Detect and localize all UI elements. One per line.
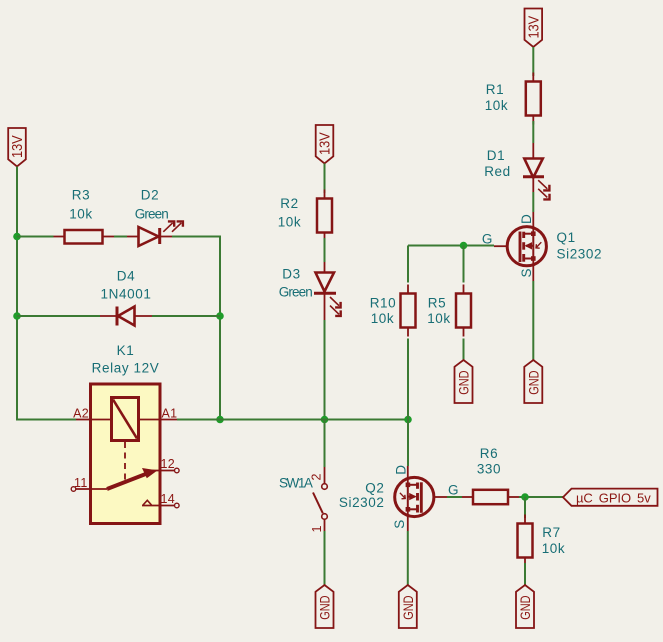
wire: gate row corner down to R10 (407, 246, 409, 283)
svg-text:Q2: Q2 (365, 481, 384, 496)
junction: left rail at D4 row (13, 312, 21, 320)
wire: R6 to global label (519, 496, 563, 498)
svg-text:11: 11 (74, 476, 88, 490)
svg-text:14: 14 (161, 492, 176, 506)
wire: R10 to relay row (407, 339, 409, 420)
junction: relay row at x220 (216, 416, 224, 424)
relay pin 14 (142, 500, 179, 508)
power symbol GND under R5 (455, 360, 473, 403)
svg-text:10k: 10k (427, 311, 451, 326)
transistor Q1 Si2302 (482, 212, 547, 281)
svg-text:10k: 10k (542, 541, 566, 556)
svg-text:10k: 10k (278, 215, 302, 230)
svg-text:Relay 12V: Relay 12V (92, 361, 160, 376)
diode D4 (100, 307, 152, 326)
resistor R6 (462, 490, 519, 504)
svg-text:R2: R2 (280, 196, 298, 211)
svg-text:D1: D1 (487, 148, 505, 163)
svg-text:G: G (482, 232, 493, 247)
wire: Q2 source to GND (407, 531, 409, 585)
wire: Q1 source to GND (532, 281, 534, 360)
junction: relay row at x324 (321, 416, 329, 424)
svg-text:R10: R10 (370, 296, 397, 311)
junction: R6/R7 node (521, 493, 529, 501)
wire: relay row down to Q2 drain (407, 420, 409, 467)
wire: D2 down to relay row (172, 237, 220, 420)
relay K1 body (91, 384, 161, 524)
wire: D3 to relay row (324, 320, 326, 420)
svg-text:µC GPIO 5v: µC GPIO 5v (576, 491, 651, 506)
switch SW1A (313, 467, 327, 531)
svg-text:R5: R5 (428, 296, 446, 311)
resistor R3 (54, 230, 115, 244)
wire: R2 to D3 (324, 238, 326, 262)
svg-text:12: 12 (161, 457, 176, 471)
svg-text:D3: D3 (282, 267, 300, 282)
svg-text:D2: D2 (141, 188, 159, 203)
svg-text:D: D (393, 464, 408, 474)
wire: junction down to R5 (463, 246, 465, 283)
relay pin A1 (160, 419, 177, 421)
junction: left rail at R3 row (13, 233, 21, 241)
wire: SW1A to GND (324, 531, 326, 585)
wire: rail to R3 (17, 236, 54, 238)
relay pin A2 (76, 419, 91, 421)
resistor R5 (456, 285, 471, 337)
power symbol GND under SW1A (316, 585, 334, 628)
svg-text:1N4001: 1N4001 (101, 287, 152, 302)
relay K1 dashed actuator line (124, 442, 126, 480)
svg-text:10k: 10k (371, 311, 395, 326)
LED D1 (523, 143, 550, 199)
junction: relay row at x408 (404, 416, 412, 424)
resistor R2 (317, 190, 332, 242)
wire: 13V to R1 (532, 47, 534, 76)
svg-text:SW1A: SW1A (279, 476, 314, 491)
wire: relay row down to SW1A (324, 420, 326, 468)
svg-text:K1: K1 (117, 343, 135, 358)
wire: node down to R7 (524, 497, 526, 518)
wire: D1 to Q1 drain (532, 192, 534, 212)
junction: D4 row right (216, 312, 224, 320)
svg-text:Green: Green (279, 285, 314, 300)
relay K1 coil (91, 398, 161, 441)
power symbol GND under R7 (516, 585, 534, 628)
wire: gate row to Q1 (408, 245, 494, 247)
power flag 13V middle (316, 125, 334, 164)
svg-text:S: S (519, 268, 534, 278)
wire: relay A1 row (177, 419, 408, 421)
svg-text:Si2302: Si2302 (339, 495, 385, 510)
wire: R5 to GND (463, 339, 465, 361)
svg-text:10k: 10k (69, 207, 93, 222)
wire: R1 to D1 (532, 121, 534, 143)
resistor R10 (401, 285, 416, 337)
svg-text:G: G (448, 482, 459, 497)
svg-text:R6: R6 (480, 446, 498, 461)
transistor Q2 Si2302 (392, 464, 459, 531)
power symbol GND under Q2 (399, 585, 417, 628)
wire: Q2 gate to R6 (447, 496, 462, 498)
wire: 13V to R2 (324, 164, 326, 194)
relay pin 12 (175, 468, 180, 473)
wire: left 13V rail down and to relay A2 (17, 167, 76, 420)
svg-text:A1: A1 (162, 407, 178, 421)
svg-text:D: D (519, 214, 534, 224)
svg-text:330: 330 (477, 462, 501, 477)
resistor R7 (518, 515, 533, 567)
svg-text:10k: 10k (485, 98, 509, 113)
wire: rail to D4 (17, 315, 100, 317)
svg-text:R1: R1 (486, 82, 504, 97)
wire: D4 to vertical (152, 315, 220, 317)
svg-text:D4: D4 (117, 269, 135, 284)
svg-text:2: 2 (310, 473, 324, 480)
power flag 13V left (8, 128, 26, 167)
svg-text:1: 1 (310, 525, 324, 532)
LED D2 (127, 221, 183, 246)
svg-text:Red: Red (484, 164, 511, 179)
svg-text:R3: R3 (72, 188, 90, 203)
power symbol GND under Q1 (524, 360, 542, 403)
svg-text:Green: Green (135, 207, 170, 222)
power flag 13V right (525, 9, 543, 48)
svg-text:A2: A2 (73, 407, 89, 421)
svg-text:Si2302: Si2302 (557, 247, 603, 262)
wire: R3 to D2 (114, 236, 127, 238)
svg-text:S: S (392, 519, 407, 529)
relay switch arm (107, 468, 174, 489)
resistor R1 (526, 73, 541, 125)
junction: gate row at R5 (460, 242, 468, 250)
relay pin 11 (71, 487, 107, 492)
global label uC GPIO 5v (563, 489, 658, 506)
svg-text:Q1: Q1 (557, 230, 576, 245)
wire: R7 to GND (524, 563, 526, 585)
LED D3 (314, 262, 341, 320)
svg-text:R7: R7 (542, 525, 560, 540)
